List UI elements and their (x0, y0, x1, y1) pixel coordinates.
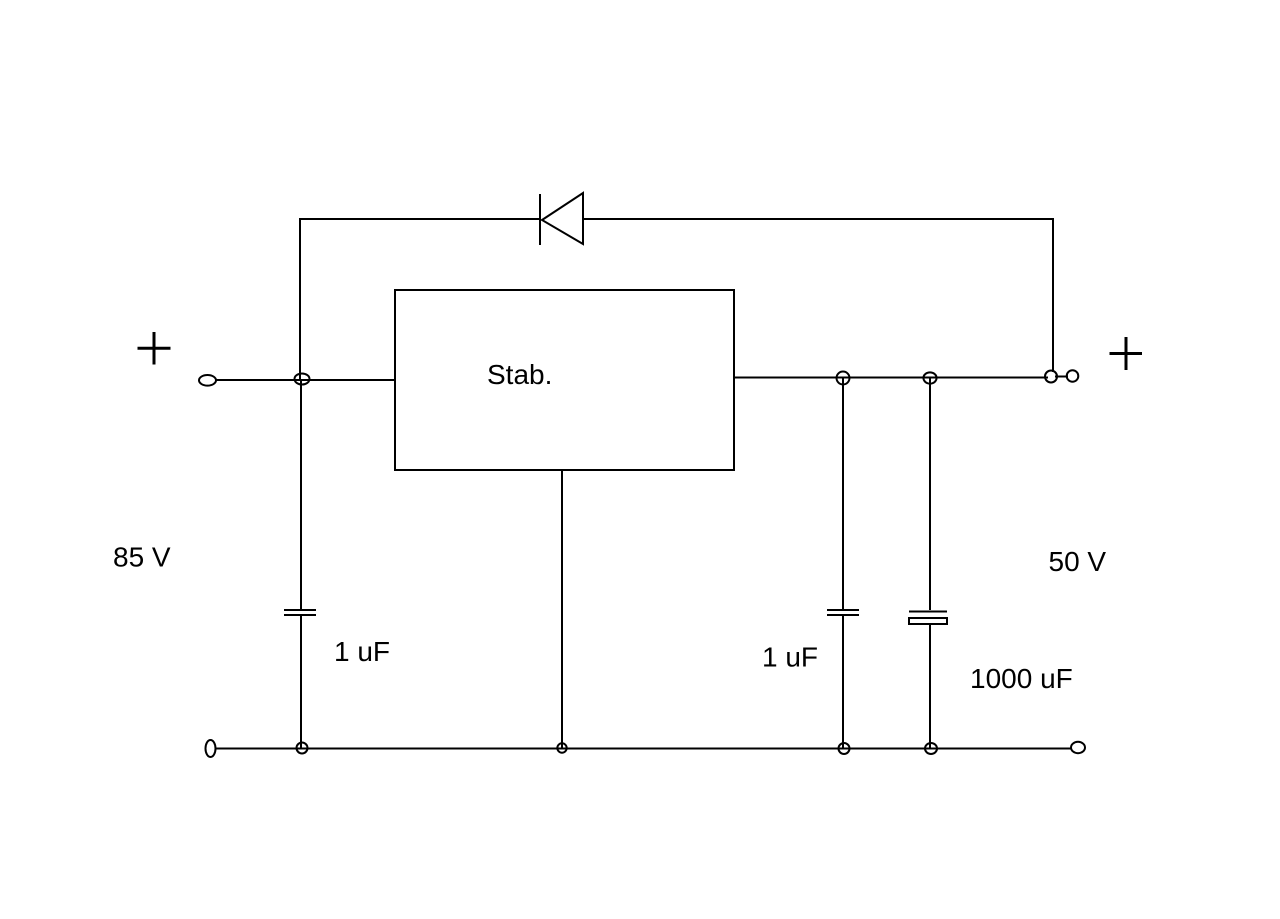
svg-text:1 uF: 1 uF (334, 636, 390, 667)
wire: bottom return rail (215, 748, 1071, 750)
svg-text:1000 uF: 1000 uF (970, 663, 1073, 694)
wire: left feedback drop (top-left corner down to input node) (299, 218, 301, 380)
svg-text:1 uF: 1 uF (762, 642, 818, 673)
terminal: input + (top-left, open ellipse) (199, 375, 216, 386)
junction: input node (input wire / feedback / C1) (295, 374, 310, 385)
svg-text:Stab.: Stab. (487, 359, 552, 390)
capacitor 1 uF (input): top lead (300, 380, 302, 609)
capacitor 1 uF (output): plates (827, 610, 859, 615)
wire: right feedback drop (top-right corner down to output node) (1052, 218, 1054, 372)
junction: bottom rail / C1 (297, 743, 308, 754)
capacitor 1 uF (output): top lead (842, 378, 844, 609)
capacitor 1 uF (input): bottom lead (300, 616, 302, 748)
junction: bottom rail / Stab ground (557, 743, 566, 752)
junction: output wire / C2 (837, 372, 850, 385)
capacitor 1000 uF (electrolytic): bottom lead (929, 624, 931, 748)
capacitor 1000 uF (electrolytic): top lead (929, 377, 931, 610)
stabilizer block Stab. (395, 290, 734, 470)
diode (pointing left, cathode bar at left) (540, 193, 583, 245)
wire: top feedback rail left segment (corner to diode cathode) (300, 218, 540, 220)
junction: bottom rail / C2 (839, 743, 850, 754)
terminal: input - (bottom-left, open ellipse) (206, 740, 216, 757)
svg-text:50 V: 50 V (1049, 546, 1107, 577)
wire: output node to output terminal (1055, 376, 1068, 378)
wire: Stab ground lead down to bottom rail (561, 470, 563, 748)
wire: output lead (Stab output to output node) (734, 377, 1048, 379)
junction: output wire / C3 (923, 372, 936, 383)
wire: input lead (left terminal to Stab input) (216, 379, 395, 381)
junction: bottom rail / C3 (925, 743, 937, 754)
terminal: output - (bottom-right, open circle) (1071, 742, 1085, 753)
capacitor 1 uF (input): plates (284, 610, 316, 615)
junction: output node (feedback drop) (1045, 371, 1057, 383)
svg-text:85 V: 85 V (113, 542, 171, 573)
polarity + (input side) (138, 332, 171, 365)
capacitor 1000 uF (electrolytic): plates (909, 612, 947, 625)
terminal: output + (top-right, open circle) (1067, 370, 1079, 381)
capacitor 1 uF (output): bottom lead (842, 616, 844, 748)
wire: top feedback rail right segment (diode anode to right corner) (583, 218, 1053, 220)
polarity + (output side) (1110, 337, 1143, 370)
